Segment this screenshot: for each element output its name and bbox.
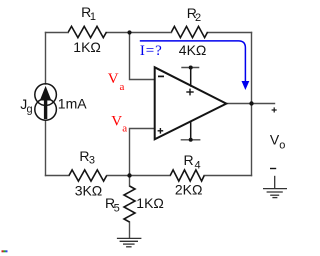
svg-text:4: 4 xyxy=(195,159,201,171)
svg-text:5: 5 xyxy=(114,202,120,214)
svg-text:o: o xyxy=(279,140,285,152)
svg-text:=: = xyxy=(146,43,154,59)
svg-text:?: ? xyxy=(155,43,162,59)
svg-text:2KΩ: 2KΩ xyxy=(175,182,203,198)
svg-text:3KΩ: 3KΩ xyxy=(75,182,103,198)
svg-text:1: 1 xyxy=(90,11,96,23)
svg-text:a: a xyxy=(122,123,127,135)
svg-text:1mA: 1mA xyxy=(58,95,87,111)
svg-text:4KΩ: 4KΩ xyxy=(179,42,207,58)
svg-text:a: a xyxy=(120,81,125,93)
svg-text:1KΩ: 1KΩ xyxy=(136,195,164,211)
svg-text:R: R xyxy=(184,152,194,168)
svg-text:V: V xyxy=(111,113,122,129)
svg-text:I: I xyxy=(140,43,145,59)
svg-text:3: 3 xyxy=(89,154,95,166)
svg-text:g: g xyxy=(27,103,33,115)
svg-text:1KΩ: 1KΩ xyxy=(73,39,101,55)
svg-text:2: 2 xyxy=(195,12,201,24)
svg-text:V: V xyxy=(108,71,119,87)
